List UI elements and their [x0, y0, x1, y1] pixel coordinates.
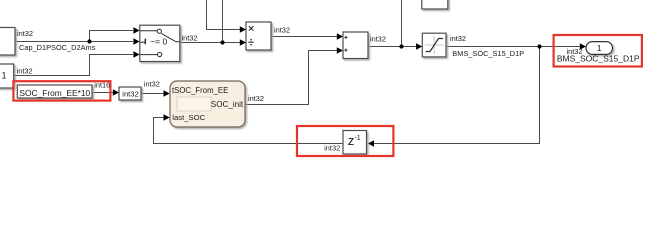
svg-text:int16: int16 [94, 81, 110, 90]
svg-text:BMS_SOC_S15_D1P: BMS_SOC_S15_D1P [452, 49, 524, 58]
svg-text:int32: int32 [144, 79, 160, 88]
svg-text:int32: int32 [450, 34, 466, 43]
svg-text:1: 1 [2, 70, 7, 80]
svg-text:int32: int32 [17, 67, 33, 76]
svg-text:Cap_D1PSOC_D2Ams: Cap_D1PSOC_D2Ams [19, 43, 96, 52]
svg-text:last_SOC: last_SOC [172, 113, 205, 122]
svg-text:z: z [348, 133, 355, 148]
svg-text:SOC_From_EE*10: SOC_From_EE*10 [19, 88, 90, 98]
svg-text:~= 0: ~= 0 [150, 36, 167, 46]
svg-text:tSOC_From_EE: tSOC_From_EE [172, 86, 228, 95]
svg-text:-1: -1 [354, 135, 360, 142]
svg-text:BMS_SOC_S15_D1P: BMS_SOC_S15_D1P [557, 54, 640, 64]
svg-text:int32: int32 [248, 94, 264, 103]
svg-text:int32: int32 [182, 33, 198, 42]
svg-text:int32: int32 [370, 34, 386, 43]
svg-text:int32: int32 [274, 25, 290, 34]
svg-text:int32: int32 [324, 144, 340, 153]
svg-text:SOC_init: SOC_init [211, 100, 244, 109]
svg-text:int32: int32 [17, 29, 33, 38]
svg-text:int32: int32 [122, 89, 138, 98]
svg-text:1: 1 [597, 43, 602, 53]
